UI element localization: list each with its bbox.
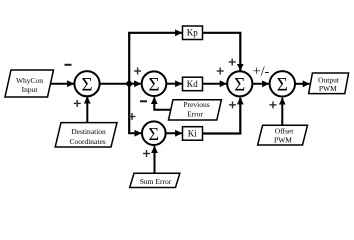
block Previous Error — [169, 100, 222, 120]
wire Ki to S4 — [203, 98, 241, 134]
wire Sum Error to S3 — [154, 146, 156, 173]
sign plus at S5 bottom input — [270, 101, 277, 108]
svg-text:Error: Error — [187, 110, 203, 119]
sign plus at S4 left input — [217, 68, 224, 75]
svg-text:Previous: Previous — [183, 100, 209, 109]
gain block Kp — [183, 26, 203, 40]
sign plus at S3 left input — [129, 113, 136, 120]
svg-text:Coordinates: Coordinates — [69, 137, 105, 146]
block Offset PWM — [258, 125, 308, 145]
sign plus at S4 top input — [229, 59, 236, 66]
wire trunk to Kp — [128, 32, 182, 34]
block Output PWM — [309, 73, 349, 94]
svg-text:PWM: PWM — [274, 136, 292, 145]
summing junction S2 — [142, 71, 167, 96]
svg-text:Destination: Destination — [71, 127, 106, 136]
block Destination Coordinates — [55, 123, 117, 147]
sign minus at S2 bottom input — [140, 100, 147, 102]
sign plus at S4 bottom input — [229, 101, 236, 108]
wire junction to S2 — [129, 83, 141, 85]
wire WhyCon to S1 — [51, 83, 74, 85]
svg-text:Input: Input — [22, 85, 39, 94]
sign plus at S3 bottom input — [143, 150, 150, 157]
gain block Ki — [183, 127, 203, 141]
wire Offset to S5 — [281, 98, 283, 125]
summing junction S5 — [270, 71, 295, 96]
wire trunk to S3 — [128, 132, 141, 134]
svg-text:PWM: PWM — [319, 84, 337, 93]
wire Kd to S4 — [203, 83, 227, 85]
svg-text:Sum Error: Sum Error — [140, 177, 172, 186]
svg-text:Σ: Σ — [148, 75, 159, 96]
sign minus at S1 top input — [65, 64, 72, 66]
junction node — [126, 81, 132, 87]
wire S1 to junction node — [100, 83, 130, 85]
wire trunk vertical — [128, 33, 130, 133]
svg-text:Kp: Kp — [187, 28, 198, 38]
svg-text:Σ: Σ — [234, 75, 245, 96]
sign plus at S1 bottom input — [74, 100, 81, 107]
wire Destination to S1 — [86, 97, 88, 123]
svg-text:Ki: Ki — [188, 129, 197, 139]
gain block Kd — [183, 77, 203, 91]
wire S3 to Ki — [166, 132, 182, 134]
summing junction S3 — [142, 121, 166, 145]
wire S2 to Kd — [166, 83, 182, 85]
summing junction S1 — [74, 71, 99, 96]
svg-text:Kd: Kd — [187, 79, 198, 89]
svg-text:Σ: Σ — [277, 75, 288, 96]
block Sum Error — [130, 173, 180, 187]
svg-text:Σ: Σ — [149, 124, 159, 144]
svg-text:+/-: +/- — [253, 65, 270, 80]
block WhyCon Input — [5, 70, 54, 97]
wire S4 to S5 — [252, 83, 269, 85]
svg-text:Offset: Offset — [275, 126, 295, 135]
svg-text:WhyCon: WhyCon — [16, 76, 43, 85]
wire Kp to S4 — [203, 33, 241, 71]
svg-text:Σ: Σ — [81, 75, 92, 96]
wire Previous Error to S2 — [154, 97, 170, 110]
summing junction S4 — [227, 71, 252, 96]
sign plus at S2 left input — [134, 68, 141, 75]
wire S5 to Output PWM — [295, 83, 310, 85]
